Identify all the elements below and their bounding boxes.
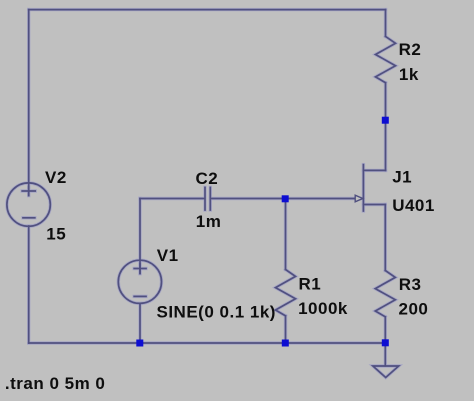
- svg-text:SINE(0 0.1 1k): SINE(0 0.1 1k): [157, 303, 276, 322]
- svg-text:J1: J1: [392, 168, 412, 187]
- svg-text:1m: 1m: [196, 212, 222, 231]
- node junction R3 bottom / ground: [382, 339, 389, 346]
- svg-text:U401: U401: [392, 196, 435, 215]
- svg-text:R1: R1: [299, 274, 322, 293]
- svg-text:C2: C2: [196, 169, 219, 188]
- svg-text:1k: 1k: [399, 65, 419, 84]
- node junction C2/gate/R1: [282, 195, 289, 202]
- svg-text:15: 15: [46, 224, 66, 243]
- node junction V1 bottom: [136, 340, 143, 347]
- svg-text:V1: V1: [157, 246, 179, 265]
- svg-text:R3: R3: [399, 275, 422, 294]
- all wires and symbols: soft halo pass: [7, 10, 399, 378]
- J1 gate arrow: [355, 195, 363, 202]
- node junction R1 bottom: [282, 340, 289, 347]
- svg-text:.tran 0 5m 0: .tran 0 5m 0: [5, 374, 106, 393]
- svg-text:1000k: 1000k: [298, 299, 348, 318]
- svg-text:R2: R2: [399, 40, 422, 59]
- all wires and symbols: dark core pass: [7, 10, 399, 378]
- node junction drain/R2: [382, 117, 389, 124]
- svg-text:V2: V2: [45, 168, 67, 187]
- svg-text:200: 200: [399, 299, 429, 318]
